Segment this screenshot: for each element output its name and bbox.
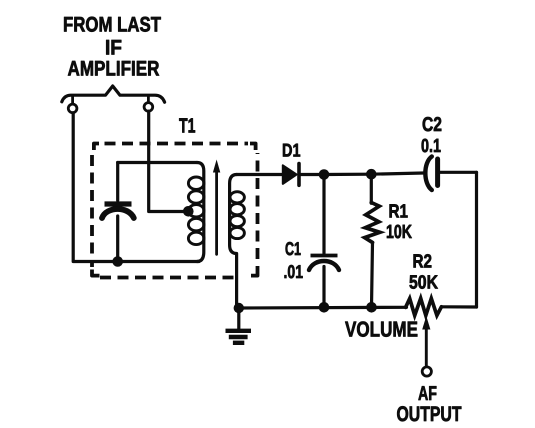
svg-text:FROM LAST: FROM LAST <box>63 14 161 37</box>
svg-text:T1: T1 <box>179 115 196 138</box>
svg-text:.01: .01 <box>284 261 304 282</box>
R1 label <box>386 202 412 244</box>
node: C1 top junction <box>319 169 330 180</box>
transformer T1 dashed enclosure <box>92 153 258 278</box>
node: R1 bottom junction <box>366 302 377 313</box>
wire: right input terminal down to tap <box>149 111 184 211</box>
svg-text:0.1: 0.1 <box>421 136 441 157</box>
capacitor C2 <box>425 157 476 191</box>
node: ground junction <box>234 303 244 313</box>
svg-text:C1: C1 <box>285 238 301 259</box>
svg-text:D1: D1 <box>282 140 301 161</box>
potentiometer R2 element <box>406 298 442 315</box>
C1 label <box>284 238 304 282</box>
wire: ground bus <box>239 306 407 310</box>
svg-text:IF: IF <box>105 37 122 60</box>
node: tank bottom junction <box>112 256 123 267</box>
ground <box>226 308 252 343</box>
wire: R1 node to C2 <box>371 173 423 174</box>
svg-text:VOLUME: VOLUME <box>345 318 418 342</box>
wire: detector top rail secondary to D1 <box>237 173 283 176</box>
node label: AF OUTPUT <box>397 383 462 426</box>
wire: tank bottom rail <box>113 260 199 263</box>
resistor R1 <box>365 174 380 307</box>
AF output terminal <box>422 367 431 376</box>
diode D1 <box>283 164 299 186</box>
svg-text:AF: AF <box>418 383 437 405</box>
node label: FROM LAST IF AMPLIFIER <box>63 14 161 81</box>
wire: tank top rail <box>118 161 197 164</box>
wire: D1 cathode to C1 node <box>301 173 325 176</box>
wire: R2 right to corner <box>441 305 476 308</box>
input terminal brace <box>62 86 165 102</box>
capacitor C1 <box>309 175 339 308</box>
svg-text:C2: C2 <box>422 114 442 136</box>
svg-text:10K: 10K <box>386 222 412 243</box>
R2 label <box>409 252 438 294</box>
T1 secondary winding <box>230 175 245 309</box>
tank capacitor inside T1 <box>102 163 134 262</box>
C2 label <box>421 114 442 157</box>
R2 wiper arrow <box>422 316 430 366</box>
input terminal left <box>68 104 77 113</box>
T1 tuning arrow <box>213 160 220 255</box>
svg-text:R2: R2 <box>413 252 433 273</box>
svg-text:50K: 50K <box>409 273 438 294</box>
node: primary tap junction <box>183 206 194 217</box>
T1 primary winding <box>188 163 204 262</box>
node: C1 bottom junction <box>319 302 330 313</box>
node: R1 top junction <box>366 169 377 180</box>
wire: left input terminal down and right to tank bottom <box>73 113 113 262</box>
input terminal right <box>144 103 153 112</box>
svg-text:R1: R1 <box>389 202 409 223</box>
wire: C1 node to R1 node <box>324 173 371 177</box>
svg-text:AMPLIFIER: AMPLIFIER <box>68 58 160 81</box>
svg-text:OUTPUT: OUTPUT <box>397 403 462 426</box>
wire: right edge C2 down to R2 <box>475 172 478 307</box>
